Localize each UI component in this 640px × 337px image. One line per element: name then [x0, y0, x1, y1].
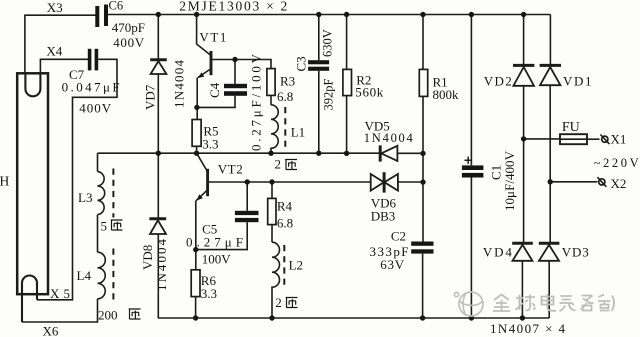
wire X2 — [550, 181, 597, 183]
diode VD8 — [149, 217, 166, 220]
svg-text:1N4004: 1N4004 — [364, 131, 414, 145]
svg-text:VD2: VD2 — [484, 74, 512, 89]
resistor R4 — [271, 182, 273, 198]
junction dots VT2 base line — [245, 179, 250, 184]
diode VD3 — [539, 242, 560, 245]
svg-text:63V: 63V — [380, 257, 405, 272]
label C1 plus sign — [465, 157, 472, 164]
wire L4 to L3 — [97, 215, 99, 253]
svg-text:470pF: 470pF — [112, 20, 145, 35]
wire VT1 base lead — [212, 60, 271, 69]
wire VD8 to bottom rail — [157, 234, 159, 318]
svg-text:~220V: ~220V — [594, 156, 639, 170]
svg-text:0.047μF: 0.047μF — [62, 80, 120, 95]
diode VD5 — [379, 145, 382, 161]
capacitor C4 — [234, 60, 236, 84]
svg-text:X6: X6 — [43, 324, 59, 337]
glyph turn (200) — [129, 309, 141, 319]
junction dots bottom rail — [193, 315, 198, 320]
svg-text:L4: L4 — [77, 268, 92, 283]
svg-text:X3: X3 — [47, 0, 63, 15]
svg-text:400V: 400V — [113, 35, 145, 50]
terminal X1 — [602, 136, 608, 142]
svg-text:392pF: 392pF — [322, 79, 336, 111]
svg-text:X2: X2 — [611, 176, 627, 191]
watermark globe icon — [454, 292, 483, 316]
inductor L2 — [272, 242, 280, 318]
watermark text — [493, 294, 614, 311]
wire L3 to mid rail — [97, 153, 99, 171]
resistor R1 — [422, 15, 424, 70]
resistor R6 — [191, 270, 200, 297]
wire VD2 to FU node — [523, 86, 525, 243]
svg-text:6.8: 6.8 — [277, 89, 293, 104]
svg-text:2MJE13003 × 2: 2MJE13003 × 2 — [179, 0, 287, 14]
inductor L4 — [98, 252, 106, 299]
svg-text:VD7: VD7 — [143, 84, 158, 110]
transistor VT2 — [197, 153, 208, 172]
core of L2 — [283, 245, 285, 286]
lamp top filament — [25, 74, 40, 97]
wire VD7 column upper — [157, 15, 159, 61]
wire X4 stub and vertical — [40, 59, 88, 73]
glyph turn (5) — [111, 220, 123, 230]
wire X6 — [22, 299, 98, 322]
lamp bottom filament — [22, 276, 37, 323]
svg-text:C2: C2 — [391, 229, 406, 244]
svg-text:200: 200 — [98, 308, 118, 323]
wire mid rail left of VD5 — [98, 152, 381, 154]
svg-text:VT1: VT1 — [199, 30, 226, 45]
svg-text:800k: 800k — [433, 87, 460, 102]
capacitor C5 — [246, 182, 248, 211]
svg-text:560k: 560k — [355, 85, 384, 100]
junction dot X2 tap — [548, 179, 553, 184]
diode VD4 — [512, 242, 533, 245]
svg-text:X1: X1 — [611, 132, 627, 147]
glyph turn (L2) — [286, 298, 298, 308]
wire VD4 to bottom rail — [521, 261, 523, 318]
svg-text:C3: C3 — [294, 56, 309, 71]
resistor R3 — [267, 69, 275, 96]
svg-text:L2: L2 — [289, 258, 303, 273]
core of L4 — [112, 249, 114, 301]
core of L3 — [112, 169, 114, 218]
svg-text:2: 2 — [275, 157, 282, 172]
svg-text:VD1: VD1 — [563, 74, 592, 89]
wire R6 to bottom rail — [195, 297, 197, 318]
svg-text:100V: 100V — [202, 252, 232, 267]
svg-text:L3: L3 — [78, 190, 92, 205]
svg-text:1N4004: 1N4004 — [154, 239, 169, 292]
core of L1 — [284, 107, 286, 148]
inductor L3 — [98, 172, 105, 215]
wire top rail — [104, 14, 551, 16]
wire R5 to mid rail — [196, 146, 198, 153]
svg-text:10μF/400V: 10μF/400V — [502, 150, 517, 211]
wire R3 to L1 — [270, 95, 272, 104]
svg-text:R3: R3 — [280, 74, 295, 89]
svg-text:DB3: DB3 — [371, 209, 396, 224]
svg-text:X4: X4 — [46, 44, 62, 59]
wire X3 stub and vertical — [25, 15, 96, 73]
diode VD2 — [513, 64, 534, 67]
svg-text:0.27μF/100V: 0.27μF/100V — [249, 53, 264, 151]
glyph turn (L1) — [285, 160, 297, 170]
svg-text:3.3: 3.3 — [202, 137, 218, 152]
wire mid rail right of VD5 — [397, 152, 423, 154]
wire mid rail to VD8 — [157, 153, 159, 219]
svg-text:H: H — [0, 174, 10, 189]
capacitor C2 — [411, 242, 433, 246]
lamp tube H — [17, 73, 48, 294]
diac VD6 — [383, 172, 386, 192]
capacitor C7 — [88, 49, 92, 71]
junction dots mid rail — [156, 151, 161, 156]
svg-text:1N4007 × 4: 1N4007 × 4 — [490, 321, 566, 336]
wire VD3 to bottom rail — [548, 261, 550, 318]
svg-text:VT2: VT2 — [218, 162, 243, 177]
junction dots top rail — [156, 12, 161, 17]
svg-text:L1: L1 — [291, 125, 305, 140]
capacitor C3 — [318, 15, 320, 61]
wire R4 to L2 — [271, 225, 273, 243]
junction dot VT1 base C4 — [232, 57, 237, 62]
transistor VT1 — [197, 15, 211, 56]
svg-text:3.3: 3.3 — [201, 286, 217, 301]
wire VD2 column upper — [523, 15, 525, 67]
resistor R2 — [346, 15, 348, 70]
svg-text:2: 2 — [275, 295, 282, 310]
resistor R5 — [192, 120, 201, 147]
wire VD1 column — [549, 15, 551, 67]
svg-text:6.8: 6.8 — [277, 216, 293, 231]
svg-text:C4: C4 — [207, 82, 222, 98]
junction dot VT1 emitter C4 return — [194, 105, 199, 110]
wire VD7 to mid rail — [157, 74, 159, 153]
wire bottom rail — [158, 317, 550, 319]
inductor L1 — [271, 105, 278, 153]
svg-text:630V: 630V — [321, 29, 335, 57]
svg-text:5: 5 — [101, 219, 108, 234]
wire C7 return to X5 — [37, 59, 117, 299]
fuse FU — [524, 138, 560, 140]
junction dot FU tap — [521, 136, 526, 141]
junction dot VT2 emitter C5 return — [193, 247, 198, 252]
svg-text:X5: X5 — [50, 286, 70, 301]
capacitor C6 — [95, 6, 99, 27]
diode VD7 — [150, 58, 167, 61]
svg-text:VD4: VD4 — [483, 245, 513, 260]
svg-text:1N4004: 1N4004 — [172, 60, 187, 109]
svg-text:FU: FU — [562, 120, 580, 135]
capacitor C1 — [470, 15, 472, 166]
svg-text:400V: 400V — [79, 101, 112, 116]
diode VD1 — [540, 64, 561, 67]
svg-text:R4: R4 — [277, 199, 293, 214]
wire VD1 to VD3 — [549, 85, 551, 243]
wire VT2 base lead — [209, 181, 371, 183]
svg-text:VD8: VD8 — [140, 245, 155, 270]
terminal X2 — [599, 179, 605, 185]
svg-text:C6: C6 — [109, 0, 124, 13]
svg-text:VD3: VD3 — [562, 245, 589, 260]
